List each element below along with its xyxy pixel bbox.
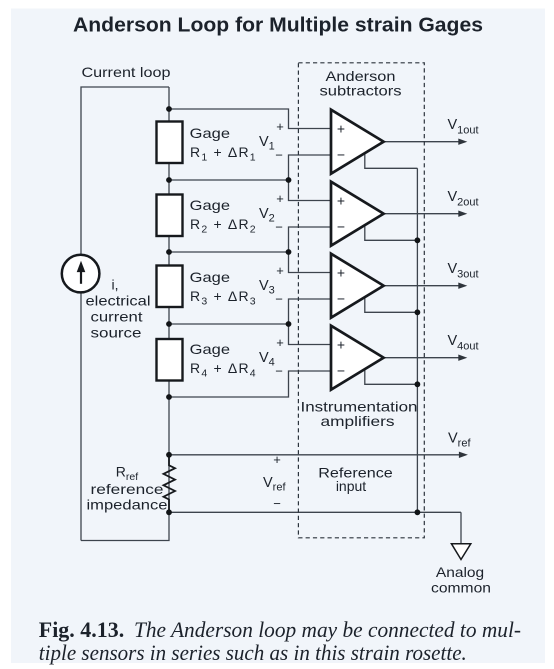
dashed subtractor box <box>298 63 424 538</box>
wire: rail2 down branch to amp3 + input <box>289 252 332 273</box>
svg-text:i,: i, <box>112 277 119 293</box>
wire: reference bottom line <box>169 511 461 513</box>
current source I1 arrow <box>80 271 82 284</box>
svg-text:+: + <box>273 452 281 467</box>
resistor R2 gage box <box>157 195 183 237</box>
wire: amp3 output <box>384 285 459 287</box>
arrowhead: V2out <box>458 211 467 217</box>
svg-text:impedance: impedance <box>87 497 168 513</box>
svg-text:−: − <box>275 220 283 235</box>
current source I1 <box>62 255 100 293</box>
wire: analog common drop <box>460 512 462 543</box>
op-amp U1 <box>331 110 384 174</box>
svg-text:−: − <box>337 219 345 235</box>
svg-text:amplifiers: amplifiers <box>321 413 395 429</box>
svg-text:−: − <box>273 496 281 511</box>
wire: rail3 down branch to amp4 + input <box>289 324 332 345</box>
svg-text:Current loop: Current loop <box>82 64 171 80</box>
wire: rail 2 <box>169 251 289 253</box>
svg-text:electrical: electrical <box>86 293 151 309</box>
arrowhead: V4out <box>458 355 467 361</box>
svg-text:−: − <box>275 292 283 307</box>
svg-text:−: − <box>275 364 283 379</box>
svg-text:+: + <box>337 193 345 209</box>
wire: left current-loop vertical + top horizontal <box>81 87 169 541</box>
wire: rail2 up branch to amp2 - input <box>289 227 332 252</box>
wire: amp4 output <box>384 357 459 359</box>
svg-text:+: + <box>337 337 345 353</box>
wire: bottom loop return <box>81 512 169 540</box>
svg-text:reference: reference <box>91 481 164 497</box>
resistor R1 gage box <box>157 122 183 164</box>
svg-text:Analog: Analog <box>436 564 484 580</box>
svg-text:Fig. 4.13.: Fig. 4.13. <box>39 617 124 642</box>
op-amp U2 <box>331 182 384 246</box>
svg-text:source: source <box>91 325 142 341</box>
svg-text:+: + <box>276 335 284 350</box>
svg-text:−: − <box>337 147 345 163</box>
svg-text:Gage: Gage <box>190 125 231 141</box>
op-amp U4 <box>331 326 384 390</box>
wire: rail3 up branch to amp3 - input <box>289 299 332 324</box>
wire: rail 4 to amp4 - input <box>169 371 331 397</box>
svg-text:input: input <box>336 478 366 494</box>
wire: rail1 down branch to amp2 + input <box>289 180 332 201</box>
svg-text:common: common <box>431 580 491 596</box>
ground: analog common symbol <box>451 544 470 560</box>
wire: rail 0 to amp1 + input <box>169 109 331 129</box>
wire: rail 3 <box>169 323 289 325</box>
resistor R4 gage box <box>157 339 183 381</box>
svg-text:+: + <box>276 191 284 206</box>
wire: rail1 up branch to amp1 - input <box>289 155 332 180</box>
node: junction dots on sense steps <box>286 177 292 183</box>
svg-text:current: current <box>91 309 143 325</box>
svg-text:−: − <box>275 148 283 163</box>
wire: amp2 feedback to reference bus <box>365 225 418 241</box>
svg-text:+: + <box>337 121 345 137</box>
resistor Rref zigzag <box>164 455 176 513</box>
arrowhead: V3out <box>458 283 467 289</box>
arrowhead: V1out <box>458 139 467 145</box>
arrowhead: Vref <box>459 452 468 458</box>
wire: amp3 feedback to reference bus <box>365 297 418 313</box>
svg-text:The Anderson loop may be conne: The Anderson loop may be connected to mu… <box>134 617 521 642</box>
svg-text:+: + <box>337 265 345 281</box>
svg-text:+: + <box>276 263 284 278</box>
wire: amp1 output <box>384 141 459 143</box>
resistor R3 gage box <box>157 266 183 308</box>
wire: amp2 output <box>384 213 459 215</box>
op-amp U3 <box>331 254 384 318</box>
svg-text:Gage: Gage <box>190 197 231 213</box>
svg-text:+: + <box>276 119 284 134</box>
node: junction dots on reference bus <box>415 237 421 243</box>
svg-text:Gage: Gage <box>190 341 231 357</box>
svg-text:tiple sensors in series such a: tiple sensors in series such as in this … <box>39 640 467 665</box>
svg-text:Gage: Gage <box>190 269 231 285</box>
wire: amp1 feedback to reference bus <box>365 153 418 169</box>
wire: amp4 feedback to reference bus <box>365 369 418 385</box>
wire: rail 1 <box>169 179 289 181</box>
svg-text:Anderson Loop for Multiple str: Anderson Loop for Multiple strain Gages <box>73 14 483 37</box>
svg-text:subtractors: subtractors <box>320 83 402 99</box>
wire: Vref output line <box>169 454 460 456</box>
svg-text:−: − <box>337 291 345 307</box>
wire: main gage chain vertical <box>168 87 170 512</box>
node: junction dots on gage chain <box>166 106 172 112</box>
svg-text:−: − <box>337 363 345 379</box>
wire: reference bus vertical <box>416 168 418 512</box>
